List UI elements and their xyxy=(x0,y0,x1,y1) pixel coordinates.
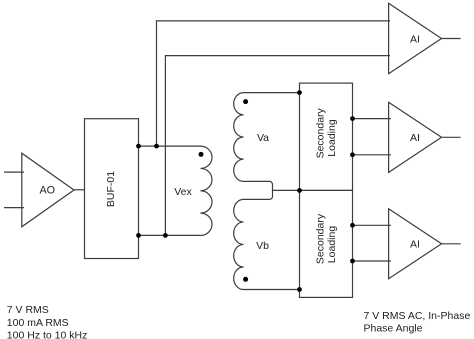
polarity dot Vex xyxy=(199,152,204,157)
junction dot node A xyxy=(154,144,159,149)
svg-text:Vb: Vb xyxy=(256,240,269,252)
svg-text:Va: Va xyxy=(257,132,269,144)
junction dot center tap at box xyxy=(297,188,302,193)
wire node B: Vex bottom to AI1 input 2 xyxy=(165,56,390,236)
transformer secondary winding Vb xyxy=(234,199,244,289)
junction dot AI3 input 1 xyxy=(350,223,355,228)
wire AI2 input 1 xyxy=(353,118,392,120)
op-amp AI1 (top) xyxy=(389,3,442,74)
wire AI3 input 1 xyxy=(353,224,392,226)
svg-text:Loading: Loading xyxy=(326,119,338,157)
wire Vb bottom to loading box xyxy=(244,289,300,291)
wire AI3 input 2 xyxy=(353,260,392,262)
svg-text:Vex: Vex xyxy=(174,186,192,198)
wire AO input 2 xyxy=(4,207,24,209)
op-amp AI2 (middle) xyxy=(389,102,442,172)
junction dot Va top at box xyxy=(297,90,302,95)
svg-text:Loading: Loading xyxy=(326,226,338,264)
polarity dot Va xyxy=(243,99,248,104)
wire AI2 output xyxy=(442,136,461,138)
svg-text:AI: AI xyxy=(410,132,420,144)
wire AO output xyxy=(73,189,85,191)
junction dot node B xyxy=(163,233,168,238)
wire AI2 input 2 xyxy=(353,154,392,156)
junction dot Vb bottom at box xyxy=(297,287,302,292)
svg-text:AO: AO xyxy=(39,184,55,196)
secondary loading box bottom xyxy=(300,190,353,297)
wire AO input 1 xyxy=(4,171,24,173)
junction dot AI2 input 1 xyxy=(350,116,355,121)
transformer secondary winding Va xyxy=(234,93,244,182)
svg-text:AI: AI xyxy=(410,33,420,45)
op-amp AO xyxy=(22,153,74,227)
junction dot AI3 input 2 xyxy=(350,259,355,264)
svg-text:100 Hz to 10 kHz: 100 Hz to 10 kHz xyxy=(7,330,88,339)
wire Vex bottom to BUF-01 xyxy=(139,234,201,236)
svg-text:AI: AI xyxy=(410,239,420,251)
svg-text:BUF-01: BUF-01 xyxy=(105,171,117,207)
secondary loading box top xyxy=(300,83,353,190)
junction dot BUF top right xyxy=(136,144,141,149)
svg-text:Phase Angle: Phase Angle xyxy=(364,323,423,335)
wire BUF-01 top output to Vex xyxy=(139,145,201,147)
buffer BUF-01 xyxy=(85,119,139,259)
wire Va top to loading box xyxy=(244,92,300,94)
svg-text:Secondary: Secondary xyxy=(314,213,326,264)
junction dot AI2 input 2 xyxy=(350,152,355,157)
label secondary loading bottom xyxy=(314,213,338,264)
wire AI3 output xyxy=(442,243,461,245)
junction dot BUF bottom right xyxy=(136,233,141,238)
label secondary loading top xyxy=(314,107,338,158)
wire node A: Vex top to AI1 input 1 xyxy=(157,21,391,146)
svg-text:7 V RMS AC, In-Phase: 7 V RMS AC, In-Phase xyxy=(364,310,471,322)
polarity dot Vb xyxy=(243,277,248,282)
transformer primary winding Vex xyxy=(201,146,213,235)
wire AI1 output xyxy=(442,38,461,40)
svg-text:100 mA RMS: 100 mA RMS xyxy=(7,317,69,329)
wire center tap to loading boxes xyxy=(273,189,300,191)
svg-text:Secondary: Secondary xyxy=(314,107,326,158)
op-amp AI3 (bottom) xyxy=(389,209,442,279)
svg-text:7 V RMS: 7 V RMS xyxy=(7,304,49,316)
wire center tap jog xyxy=(244,181,273,199)
